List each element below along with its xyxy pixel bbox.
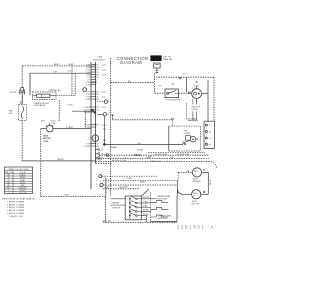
junction cross c (188, 92, 191, 95)
wire drop d3 (85, 111, 87, 128)
junction cross d (196, 138, 198, 140)
svg-text:MOTOR: MOTOR (192, 204, 200, 206)
svg-text:V BU: V BU (67, 104, 73, 106)
svg-text:BK/W: BK/W (210, 180, 212, 185)
wire BK dashed (111, 82, 155, 84)
svg-text:1 BUW: 1 BUW (84, 112, 91, 114)
wire to blower dashed (178, 172, 192, 180)
water temp switch box (125, 196, 141, 220)
junction ticks (188, 117, 198, 120)
connector P1 bold node label (91, 82, 97, 84)
wire bottom neutral horizontal (22, 160, 95, 162)
wire contact drop (146, 216, 148, 223)
label BKW vertical (210, 180, 212, 185)
wire dashed bus 3 with curve (96, 162, 217, 169)
wire dashed lock branch (186, 103, 188, 120)
wire thermo out dashed (56, 95, 75, 97)
wire left rail upper vertical (21, 66, 23, 88)
label GY 2 (68, 70, 72, 72)
svg-text:BK/W: BK/W (134, 155, 141, 157)
lock assembly inner rect (186, 136, 191, 141)
svg-text:BLACK: BLACK (19, 174, 26, 177)
svg-text:RD: RD (138, 143, 142, 145)
wire run motor left (184, 193, 192, 195)
thermal switch S1 body (19, 105, 27, 121)
wire L1 top (BKW) horizontal (22, 65, 95, 67)
svg-text:COLOR: COLOR (19, 172, 26, 174)
title CONNECTION DIAGRAM (117, 56, 149, 65)
label run motor (192, 201, 200, 206)
svg-text:GN/Y: GN/Y (104, 187, 110, 189)
svg-text:WIRES SH BE OF SU AT JB AB LN: WIRES SH BE OF SU AT JB AB LN (2, 197, 35, 200)
door switch S2 box (165, 89, 179, 98)
junction cross blower left (187, 170, 189, 172)
label door switch (165, 99, 180, 101)
wire drop under plug (154, 74, 156, 94)
legend label text (163, 57, 173, 62)
svg-text:1 BK/GY 1 CW/BK: 1 BK/GY 1 CW/BK (7, 204, 25, 206)
svg-text:4 BK/R: 4 BK/R (66, 127, 74, 129)
label GY BK (137, 150, 144, 152)
wire drop d4 (58, 100, 60, 122)
wire feed into block (111, 198, 126, 200)
blower motor M5 (192, 168, 201, 177)
label lock (193, 85, 199, 87)
label switch under lock (192, 107, 201, 112)
wire ground down (105, 197, 107, 223)
label water temp switch (110, 201, 126, 209)
wire lock out right (202, 93, 209, 95)
wire lock pins down (193, 112, 197, 121)
svg-text:PLUG: PLUG (10, 92, 16, 94)
label BKW right (68, 64, 74, 66)
svg-text:WH: WH (124, 186, 128, 188)
thermostat switch row 1 (151, 201, 169, 203)
indicator lamp DS1 (97, 100, 111, 103)
svg-text:2201831 'A': 2201831 'A' (177, 224, 217, 230)
wire tick above lock (196, 81, 198, 89)
run motor M6 (192, 190, 201, 199)
label HA (127, 177, 132, 180)
label thermostat high (157, 195, 172, 200)
wire dashed bus 2 (99, 154, 209, 156)
appliance plug symbol below legend (154, 63, 160, 74)
svg-text:WIRE GN: WIRE GN (163, 59, 173, 61)
terminal block TB1 (204, 121, 215, 148)
label THERMO (48, 90, 61, 92)
noise filter plug F1 (19, 88, 26, 96)
svg-text:WH: WH (41, 121, 45, 123)
svg-text:YELLOW: YELLOW (19, 193, 27, 195)
wire vertical with BK tag (20, 96, 22, 105)
part number 2201831 A (177, 224, 217, 230)
wire GY corner vertical (29, 73, 31, 95)
assembly switch contact (183, 141, 190, 145)
note line under table (2, 197, 35, 200)
thermostat switch row 2 (151, 208, 169, 210)
svg-text:1 BK/GY 1 CW/BK: 1 BK/GY 1 CW/BK (7, 201, 25, 203)
svg-text:BKW: BKW (97, 160, 102, 162)
wire V/BU horizontal (72, 110, 96, 112)
control board bottom dashed (96, 162, 111, 164)
label GN (65, 194, 71, 196)
svg-text:1 BK/GY 1 CW: 1 BK/GY 1 CW (9, 216, 23, 218)
wire drop d2 (74, 73, 76, 96)
wire right vertical (207, 80, 209, 122)
svg-text:BKW BK/W: BKW BK/W (35, 105, 46, 107)
svg-text:1 BK/GY 1 CW/BK: 1 BK/GY 1 CW/BK (7, 207, 25, 209)
wire mid dashed (103, 179, 177, 181)
svg-text:BK: BK (171, 118, 175, 120)
label dispenser (43, 135, 51, 143)
svg-text:1 BK/GY 1 CW/BK: 1 BK/GY 1 CW/BK (7, 210, 25, 212)
wire contact row 5 (141, 218, 146, 220)
wire contact row 4 out (148, 210, 152, 212)
label BK on wire (66, 127, 74, 129)
connector P1 pin nodes (95, 64, 96, 147)
svg-text:Y BU: Y BU (143, 206, 148, 208)
label WH2 (124, 186, 128, 188)
indicator lamp DS4 (96, 183, 177, 186)
water temp switch contacts (129, 196, 150, 219)
label for plug F1 (10, 92, 16, 94)
label WH V (41, 121, 56, 126)
svg-text:WINDER: WINDER (192, 181, 201, 183)
wire RD horizontal (105, 143, 184, 145)
wire diagonal into block (142, 189, 149, 196)
label 40 DRY b (177, 154, 189, 156)
wire board to assembly dashed (112, 115, 173, 127)
wire bottom bus (103, 221, 177, 223)
wire contact row 1 out (148, 198, 157, 200)
harness arrows (96, 149, 105, 160)
svg-text:1-8A: 1-8A (127, 177, 132, 180)
junction cross e (203, 191, 205, 193)
label GN/Y a (104, 187, 110, 189)
lamp node on bus (106, 154, 109, 157)
svg-text:SWITCH: SWITCH (112, 207, 121, 209)
svg-text:DR BK: DR BK (192, 109, 199, 111)
drain pump motor M2 (92, 135, 99, 142)
wire dashed bus 1 (148, 151, 205, 153)
svg-text:DIAGRAM: DIAGRAM (120, 60, 142, 65)
label BKW left (54, 64, 60, 66)
svg-text:XWD BJX GY: XWD BJX GY (93, 59, 106, 61)
svg-text:BK N BA: BK N BA (188, 117, 197, 120)
svg-text:WAX: WAX (43, 135, 48, 138)
wire run motor curve (177, 189, 183, 195)
wire dispenser left stub (41, 128, 47, 130)
thermo fuse box dashed (33, 92, 57, 100)
svg-text:DOOR SWITCH: DOOR SWITCH (165, 99, 180, 101)
wire lock feed vertical (186, 77, 188, 92)
wire lock down (193, 99, 197, 105)
connector P1 header (93, 57, 106, 62)
wire color table (5, 167, 33, 195)
label bold 1 (134, 155, 141, 157)
svg-text:T WB: T WB (97, 57, 103, 59)
label inside assembly (183, 130, 191, 135)
svg-text:1 WB: 1 WB (85, 99, 91, 101)
junction cross b (172, 83, 174, 85)
wire left rail lower vertical (21, 120, 23, 161)
wire lamp drop (105, 177, 107, 196)
label GY door (158, 86, 162, 88)
label BK bold at wire end (171, 118, 175, 120)
svg-text:BIAS DRY: BIAS DRY (158, 217, 168, 220)
svg-text:1 ORW: 1 ORW (84, 146, 91, 148)
door lock assembly box (169, 126, 201, 151)
svg-text:WIRE COLOR CODE: WIRE COLOR CODE (9, 169, 29, 171)
label GN/Y b (119, 187, 125, 189)
wire to door switch (155, 92, 165, 94)
label BU/C (103, 220, 112, 222)
wire ground GN/Y horizontal (41, 196, 106, 198)
wax motor M4 (190, 136, 196, 142)
svg-text:GY: GY (68, 70, 72, 72)
svg-text:1 VW: 1 VW (85, 127, 90, 129)
wire right boundary dashed (213, 77, 215, 121)
label thermal fuse (34, 103, 49, 107)
svg-text:x: x (96, 174, 97, 176)
svg-text:WIR COL: WIR COL (5, 172, 13, 174)
svg-text:GY: GY (54, 72, 58, 74)
junction node RD (104, 144, 106, 146)
wire contact row 3 out (148, 206, 152, 208)
wire right motor bus vertical (207, 172, 209, 194)
svg-text:DISP: DISP (43, 141, 48, 143)
wire dashed bus 2b (96, 158, 210, 160)
label 24L (170, 157, 175, 159)
label V BU (67, 104, 73, 106)
control board dashed boundary (110, 58, 112, 196)
svg-text:BU/C BU: BU/C BU (103, 220, 112, 222)
svg-text:GRAY: GRAY (20, 179, 26, 182)
svg-text:+TEMP: +TEMP (183, 133, 191, 135)
svg-text:W BU: W BU (143, 214, 149, 216)
door lock motor M3 (192, 89, 202, 99)
wire dispenser out (53, 128, 91, 130)
svg-text:▪▪ GY: ▪▪ GY (146, 157, 152, 159)
junction node a (92, 109, 94, 111)
wire run motor right (201, 193, 209, 195)
wire GY horizontal (30, 72, 91, 74)
label blower (192, 177, 201, 183)
connector P1 right pin labels (96, 64, 106, 148)
junction node b (94, 112, 96, 114)
wire contact row 2 out (148, 202, 152, 204)
svg-text:BK/W: BK/W (58, 159, 65, 161)
label bold 2 (146, 157, 152, 159)
label WH/BK (110, 147, 117, 149)
dispenser motor M1 (46, 123, 53, 132)
connector P1 left pin labels (84, 64, 91, 148)
label thermostat bias (158, 215, 173, 221)
svg-text:Aw 1A w w 1A w: Aw 1A w w 1A w (112, 159, 127, 162)
label 40 DRY a (155, 154, 167, 156)
svg-text:Ad/BU: Ad/BU (140, 181, 146, 184)
svg-text:WH/BK: WH/BK (110, 147, 117, 149)
thermostat switch row 3 (151, 215, 169, 217)
label BK W on neutral (58, 159, 65, 161)
wire GY dashed top (156, 76, 214, 78)
wire blower right (202, 171, 209, 173)
wire dispenser down (40, 129, 42, 197)
label BKW 12 GY (150, 161, 162, 163)
svg-text:40 DRY TEM: 40 DRY TEM (177, 154, 189, 156)
svg-text:1 BK/GY 1 CW/BK: 1 BK/GY 1 CW/BK (7, 213, 25, 215)
svg-text:LOCK: LOCK (193, 85, 199, 87)
wire door switch to lock (179, 92, 192, 94)
legend black box (wire key) (150, 55, 161, 61)
indicator lamp DS2 (97, 113, 110, 117)
label row small (97, 159, 127, 162)
svg-text:40 DRY TEM: 40 DRY TEM (155, 154, 167, 156)
label RD (138, 143, 142, 145)
connector P1 ladder rails and pins (91, 62, 96, 189)
wire drop d1 (71, 66, 73, 96)
svg-text:x: x (96, 183, 97, 185)
note list under table (7, 201, 25, 218)
wire lamp2 drop vertical (103, 116, 106, 144)
junction cross a (179, 77, 181, 79)
svg-text:GN/X: GN/X (119, 187, 125, 189)
label BK (128, 81, 131, 83)
indicator lamp DS3 (96, 174, 157, 178)
wire run motor feed vertical (176, 180, 178, 196)
thermostat group box (150, 192, 177, 221)
label AdBu (140, 181, 146, 184)
wire top of block dashed (103, 188, 140, 190)
svg-text:GY BK: GY BK (137, 150, 144, 152)
label for S1 (9, 111, 13, 116)
label GY 1 (54, 72, 58, 74)
svg-text:GN/Y: GN/Y (65, 194, 71, 196)
label GY top (182, 73, 186, 75)
svg-text:HIGH LIMIT: HIGH LIMIT (157, 198, 169, 200)
junction cross blower right (203, 169, 205, 171)
svg-text:BKW: BKW (91, 82, 97, 84)
connector bead node (83, 88, 87, 92)
svg-text:1 TN: 1 TN (86, 84, 91, 86)
